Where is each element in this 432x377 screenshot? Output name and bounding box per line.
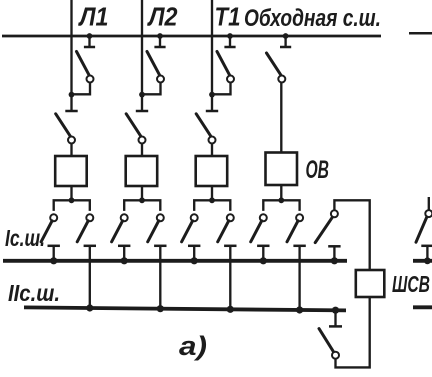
label Т1 [215, 4, 241, 32]
bypass disconnector hinge Л2 [157, 76, 164, 83]
label ШСВ [392, 271, 430, 297]
junction Т1 bypass wire on feeder [209, 92, 215, 98]
bypass disconnector hinge Т1 [227, 76, 234, 83]
wire breaker to tee Л1 [70, 186, 72, 200]
wire ШСВ contact to busbar II [334, 310, 336, 326]
bus-I disconnector fixed contact Л2 [118, 245, 130, 248]
junction fragment on busbar I [424, 257, 431, 264]
label busbar I [5, 225, 45, 251]
fragment disconnector hinge [425, 210, 432, 217]
junction ОВ on busbar II [296, 306, 303, 313]
wire contact to busbar II Л1 [89, 246, 91, 310]
wire fragment contact to busbar [426, 246, 428, 261]
feeder line Л2 [141, 0, 143, 110]
junction Л1 bypass wire on feeder [69, 92, 75, 98]
wire tee bar Л2 [124, 200, 160, 211]
bus-II disconnector fixed contact Т1 [224, 245, 236, 248]
bus-II disconnector hinge Л1 [86, 214, 93, 221]
bypass disconnector hinge Л1 [87, 76, 94, 83]
label Л1 [78, 4, 109, 32]
circuit breaker Т1 [196, 156, 228, 186]
ШСВ bus-II disconnector blade [319, 329, 333, 352]
svg-text:ОВ: ОВ [306, 156, 330, 184]
bypass circuit breaker ОВ [266, 153, 298, 186]
wire hinge to breaker Л1 [70, 143, 72, 156]
ШСВ bus-II disconnector hinge [332, 352, 339, 359]
svg-text:а): а) [179, 331, 207, 361]
junction Л2 bypass wire on feeder [139, 92, 145, 98]
junction Т1 on busbar I [191, 257, 198, 264]
svg-text:Обходная с.ш.: Обходная с.ш. [244, 5, 381, 32]
junction Л1 on busbar I [50, 257, 57, 264]
line disconnector hinge Л1 [68, 137, 75, 144]
bus-I disconnector fixed contact Т1 [188, 245, 200, 248]
busbar II fragment (next bay) [413, 305, 432, 309]
line disconnector hinge Л2 [139, 137, 146, 144]
wire contact to busbar I Л1 [53, 246, 55, 261]
junction Л1 on busbar II [86, 304, 93, 311]
feeder line Л1 [70, 0, 72, 110]
junction ШСВ on busbar I [331, 257, 338, 264]
junction Л2 on busbar II [157, 305, 164, 312]
bus-II disconnector blade Л1 [77, 221, 88, 242]
wire hinge to breaker Т1 [211, 143, 213, 156]
svg-text:ШСВ: ШСВ [392, 271, 430, 297]
ШСВ bus-II disconnector fixed contact [329, 325, 342, 328]
wire bypass disconnector to feeder Л2 [142, 82, 161, 94]
line disconnector blade Т1 [196, 114, 211, 138]
ОВ disconnector hinge [278, 76, 285, 83]
junction tee ОВ [278, 197, 284, 203]
ШСВ bus-I disconnector fixed contact [328, 245, 340, 248]
busbar I [3, 259, 347, 263]
wire tee bar Т1 [194, 200, 230, 211]
wire bypass disconnector stub Т1 [229, 36, 231, 46]
label ОВ [306, 156, 330, 184]
junction Т1 on busbar II [227, 306, 234, 313]
bus-II disconnector blade Л2 [148, 221, 159, 242]
svg-text:Л2: Л2 [147, 4, 178, 32]
line disconnector hinge Т1 [209, 137, 216, 144]
bypass busbar fragment (next bay) [409, 32, 432, 35]
bypass disconnector blade Т1 [217, 52, 230, 77]
bypass disconnector fixed contact Л1 [84, 46, 95, 49]
wire contact to busbar I Т1 [193, 246, 195, 261]
junction tee Л2 [139, 197, 145, 203]
svg-text:IIс.ш.: IIс.ш. [8, 280, 60, 306]
line disconnector fixed contact Л1 [65, 110, 77, 113]
bus-I disconnector blade Т1 [182, 221, 193, 242]
bus-I disconnector hinge Л2 [121, 214, 128, 221]
bypass busbar [2, 35, 381, 38]
junction ОВ on busbar I [260, 257, 267, 264]
junction ОВ on bypass busbar [283, 33, 289, 39]
busbar II [24, 307, 346, 310]
ОВ disconnector fixed contact [280, 46, 291, 49]
label Л2 [147, 4, 178, 32]
wire tee bar ОВ [263, 200, 299, 211]
fragment disconnector fixed contact [421, 245, 432, 248]
wire fragment disconnector stub [428, 197, 430, 210]
caption а) [179, 331, 207, 361]
wire ОВ disconnector stub [284, 36, 286, 46]
bus-II disconnector hinge Т1 [227, 214, 234, 221]
bus-I disconnector hinge Т1 [191, 214, 198, 221]
ШСВ bus-I disconnector hinge [331, 210, 338, 217]
wire contact to busbar II ОВ [298, 246, 300, 312]
line disconnector blade Л1 [56, 114, 71, 138]
wire ШСВ top bar [334, 200, 369, 270]
junction ШСВ on busbar II [332, 307, 339, 314]
bus-I disconnector blade ОВ [251, 221, 262, 242]
bus coupler breaker ШСВ [356, 270, 385, 297]
line disconnector blade Л2 [126, 114, 141, 138]
bus-I disconnector hinge Л1 [50, 214, 57, 221]
wire bypass disconnector to feeder Т1 [212, 82, 231, 94]
label busbar II [8, 280, 60, 306]
line disconnector fixed contact Т1 [206, 110, 218, 113]
wire bypass disconnector stub Л1 [88, 36, 90, 46]
wire contact to busbar I Л2 [123, 246, 125, 261]
wire bypass disconnector to feeder Л1 [72, 82, 91, 94]
feeder line Т1 [211, 0, 213, 110]
wire contact to busbar II Л2 [159, 246, 161, 310]
ОВ disconnector blade [267, 53, 282, 76]
svg-text:Л1: Л1 [78, 4, 109, 32]
svg-text:Iс.ш.: Iс.ш. [5, 225, 45, 251]
bus-I disconnector hinge ОВ [260, 214, 267, 221]
junction tee Т1 [209, 197, 215, 203]
junction Т1 on bypass busbar [227, 33, 233, 39]
bus-II disconnector blade ОВ [287, 221, 298, 242]
bus-II disconnector fixed contact Л1 [84, 245, 96, 248]
wire breaker to tee Л2 [141, 186, 143, 200]
wire ШСВ bottom loop [336, 297, 370, 367]
wire hinge to breaker Л2 [141, 143, 143, 156]
wire breaker ОВ to tee [280, 185, 282, 200]
wire tee bar Л1 [54, 200, 90, 211]
bypass disconnector fixed contact Т1 [224, 46, 235, 49]
wire contact to busbar I ОВ [262, 246, 264, 261]
junction Л2 on bypass busbar [157, 33, 163, 39]
line disconnector fixed contact Л2 [136, 110, 148, 113]
bypass disconnector blade Л2 [147, 52, 160, 77]
wire ШСВ contact to busbar I [333, 246, 335, 260]
bus-II disconnector hinge Л2 [157, 214, 164, 221]
circuit breaker Л2 [126, 156, 158, 186]
junction tee Л1 [69, 197, 75, 203]
bus-I disconnector fixed contact Л1 [48, 245, 60, 248]
bus-II disconnector fixed contact Л2 [154, 245, 166, 248]
wire bypass disconnector stub Л2 [159, 36, 161, 46]
junction Л2 on busbar I [121, 257, 128, 264]
bus-II disconnector blade Т1 [218, 221, 229, 242]
wire contact to busbar II Т1 [229, 246, 231, 311]
busbar I fragment (next bay) [413, 259, 432, 263]
bus-I disconnector fixed contact ОВ [257, 245, 269, 248]
ШСВ bus-I disconnector blade [315, 217, 332, 242]
bypass disconnector blade Л1 [77, 52, 90, 77]
wire hinge to breaker ОВ [280, 82, 282, 152]
fragment disconnector blade [416, 217, 427, 242]
svg-text:Т1: Т1 [215, 4, 241, 32]
bus-II disconnector hinge ОВ [296, 214, 303, 221]
bus-I disconnector blade Л2 [112, 221, 123, 242]
junction Л1 on bypass busbar [87, 33, 93, 39]
bypass disconnector fixed contact Л2 [154, 46, 165, 49]
circuit breaker Л1 [55, 156, 86, 186]
label bypass busbar [244, 5, 381, 32]
bus-II disconnector fixed contact ОВ [293, 245, 305, 248]
bus-I disconnector blade Л1 [41, 221, 52, 242]
wire breaker to tee Т1 [211, 186, 213, 200]
